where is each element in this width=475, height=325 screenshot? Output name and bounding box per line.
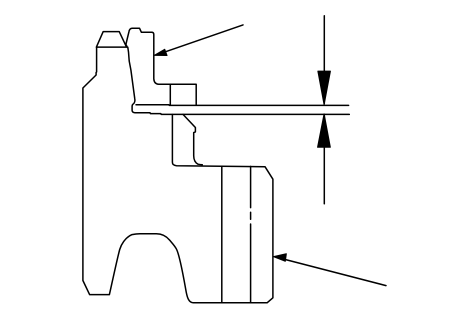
upper leader arrowhead: [154, 49, 167, 55]
centerline (dash-dot): [250, 166, 252, 302]
block left edge: [169, 84, 171, 104]
barrel interior line: [221, 166, 223, 303]
disc plate top line: [136, 104, 349, 107]
left outer profile, foot, arch, barrel bottom and right edge: [83, 47, 273, 303]
upper leader line: [157, 25, 243, 55]
trapezoid rib (top-left bead): [96, 32, 127, 47]
lower leader line: [276, 257, 386, 286]
upper dimension arrow (down): [318, 71, 331, 104]
upper dimension line: [323, 16, 325, 104]
inner lip below plate: [183, 114, 202, 164]
middle wall down to plate cap: [128, 47, 135, 112]
disc plate bottom line: [135, 113, 349, 115]
tall lug outline with V-notch: [126, 28, 196, 105]
lower dimension arrow (up): [318, 114, 331, 147]
lower leader arrowhead: [274, 254, 287, 261]
lower dimension line: [323, 115, 325, 204]
